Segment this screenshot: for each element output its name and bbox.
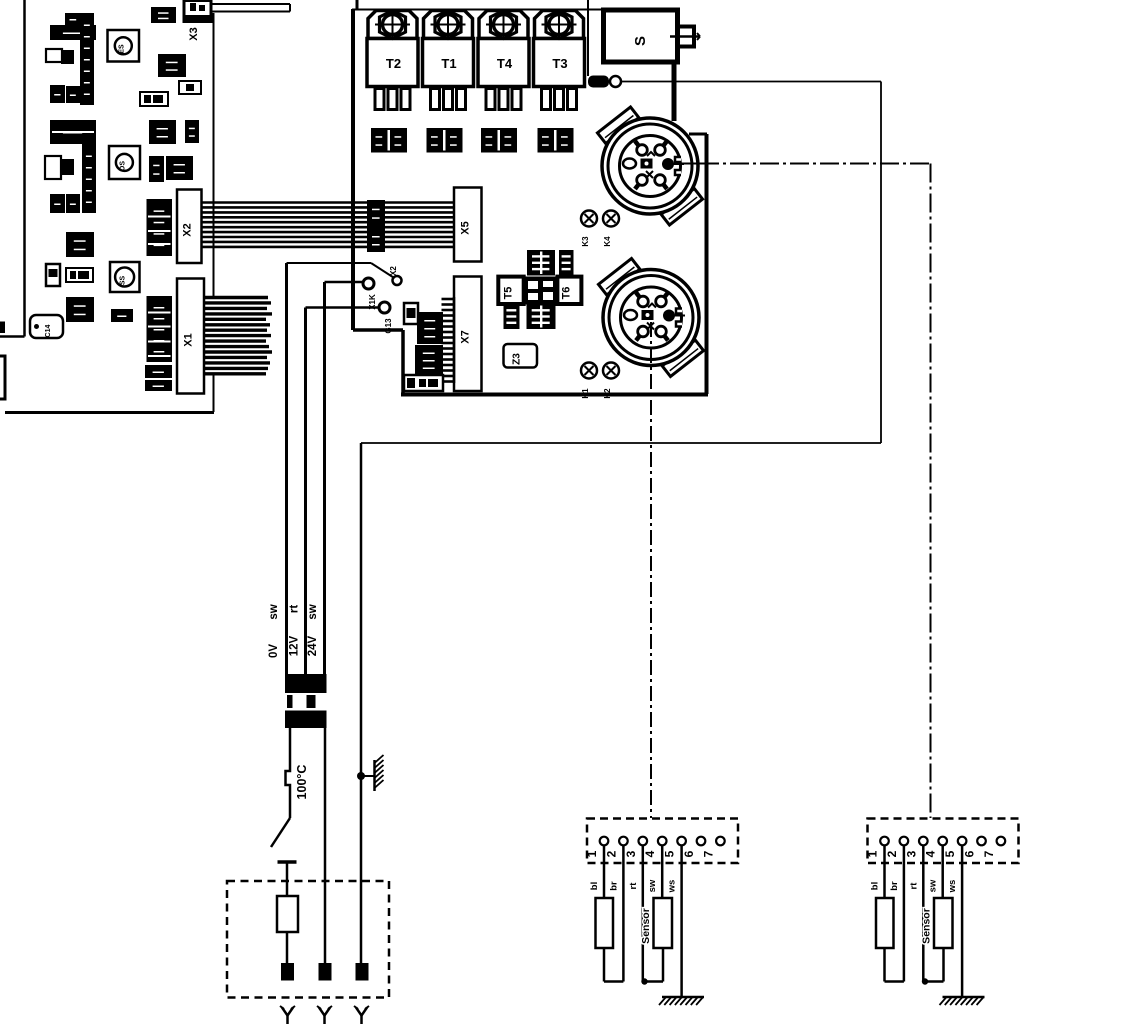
relay T5 (498, 277, 523, 304)
terminal block dashed outline (227, 881, 389, 998)
wire 12V riser (304, 308, 307, 681)
switch S (604, 10, 678, 62)
svg-text:K4: K4 (603, 236, 612, 247)
wire across middle (361, 442, 881, 444)
ground symbol chassis (361, 755, 384, 791)
wire to LED V1 (587, 0, 589, 76)
terminal lug 1 (281, 963, 294, 981)
resistor band R21 (50, 25, 96, 40)
resistor pair R45 (371, 128, 407, 153)
svg-text:0V: 0V (268, 644, 280, 658)
test point K3 (581, 211, 597, 247)
trimmer ES (108, 30, 140, 62)
svg-text:T6: T6 (561, 287, 573, 300)
frame cutout bottom left (0, 356, 5, 399)
junction dot (357, 772, 365, 780)
diode D1 (179, 81, 201, 94)
svg-text:G13: G13 (384, 318, 393, 334)
capacitor block C30/C31 (415, 345, 443, 375)
test point X1K (363, 278, 374, 289)
relay block K2B column (left of X2) (147, 199, 173, 256)
connector X2 (177, 190, 202, 264)
svg-text:K3: K3 (581, 236, 590, 247)
thermal cutout 100C wire (286, 728, 291, 818)
test point K2 (603, 363, 619, 399)
crimp symbol Y (280, 1006, 295, 1024)
svg-text:T1: T1 (441, 56, 456, 71)
capacitor C9 (45, 156, 74, 179)
resistor group 2N0 (158, 54, 186, 77)
board A1 bottom edge (5, 411, 214, 414)
diode Z01 (404, 375, 443, 391)
cable from X3 (211, 4, 290, 12)
board A2 top stub (356, 0, 359, 9)
PCB assembly A1 (left controller board) (0, 0, 214, 413)
diode pair D7/D8 (527, 304, 556, 329)
resistor pair R08 (538, 128, 574, 153)
resistor pair R4/R5 (66, 297, 94, 322)
diode block D14/D15 (417, 312, 443, 344)
board A2 bottom step (353, 328, 403, 332)
DIN connector B2 (598, 258, 703, 376)
diode 1N7 (140, 92, 168, 106)
resistor R61 (559, 250, 574, 276)
ribbon cable from X1 (204, 298, 272, 374)
resistor pair R41 (149, 120, 176, 144)
resistor R04 (504, 304, 520, 329)
terminal stub of S (670, 27, 700, 47)
diode 1NK (66, 268, 93, 282)
resistor R34 (145, 365, 172, 378)
board edge pad (0, 322, 5, 334)
transistor T3 (534, 10, 585, 110)
capacitor C5 (185, 120, 199, 143)
terminal lug 2 (319, 963, 332, 981)
board A2 right edge (689, 133, 707, 136)
transistor T1 (423, 10, 474, 110)
diode Z3 (504, 344, 538, 368)
resistor pair R05 (427, 128, 463, 153)
wire 0V riser (285, 263, 288, 680)
transistor T4 (478, 10, 529, 110)
crimp symbol Y (317, 1006, 332, 1024)
wire fuse to terminal (286, 932, 289, 963)
diode block center D4 (524, 277, 558, 305)
crimp symbol Y (354, 1006, 369, 1024)
PCB assembly A2 (right driver board) (352, 0, 708, 395)
board A2 left edge (351, 9, 355, 330)
svg-text:K2: K2 (603, 388, 612, 399)
trimmer SS (110, 262, 140, 292)
wire 24V to terminal (324, 728, 327, 963)
transistor T2 (367, 10, 418, 110)
connector X1 (177, 279, 204, 394)
connector X4 on ribbon (367, 200, 385, 252)
wire S to connector (672, 62, 677, 121)
svg-text:X1: X1 (183, 333, 195, 346)
sensor plug 2 with resistor and sensor (866, 819, 1019, 1006)
resistor R8 (50, 85, 80, 103)
svg-text:24V: 24V (307, 635, 319, 656)
LED V1 (588, 76, 621, 88)
resistor R31 (151, 7, 176, 23)
test point G13 (379, 302, 390, 313)
resistor R7 (149, 156, 164, 182)
cable to sensor plug 1 (650, 322, 652, 818)
svg-text:Z3: Z3 (512, 353, 523, 365)
resistor group R16/R26 (50, 194, 80, 213)
cable sleeve upper (285, 674, 327, 693)
resistor band R15/R35 (50, 120, 96, 144)
connector X7 (454, 277, 482, 392)
terminal lug 3 (356, 963, 369, 981)
svg-text:K1: K1 (581, 388, 590, 399)
svg-text:rt: rt (289, 605, 301, 613)
svg-text:ES: ES (118, 44, 125, 54)
resistor column R24-R29b (82, 144, 96, 213)
board A1 right edge (213, 13, 215, 296)
switch contact bar (278, 860, 297, 864)
svg-text:X7: X7 (460, 330, 472, 343)
board A2 top edge (352, 9, 603, 11)
svg-text:OS: OS (119, 161, 126, 171)
board A1 left edge (23, 0, 26, 337)
connector X5 (454, 188, 482, 262)
svg-text:T3: T3 (552, 56, 567, 71)
wire V1 down right side (880, 82, 882, 444)
capacitor C14 (30, 315, 63, 338)
svg-text:T4: T4 (497, 56, 513, 71)
diode pair D2/D3 (527, 250, 555, 276)
wire node X2 (287, 262, 372, 264)
capacitor CH (46, 264, 60, 286)
resistor pair R05b (481, 128, 517, 153)
test point K4 (603, 211, 619, 247)
resistor pair R28 (166, 156, 193, 180)
wire node X1K (325, 281, 364, 284)
resistor ES1 (111, 309, 133, 322)
board A1 edge step (0, 335, 25, 338)
cable sleeve lower (285, 711, 327, 729)
cable tie marks (287, 695, 293, 708)
trimmer OS (109, 146, 140, 179)
cable to sensor plug 2 (676, 163, 700, 165)
resistor R14b (145, 380, 172, 391)
wire 24V riser (323, 282, 326, 680)
resistor R18 (65, 13, 81, 25)
svg-text:T5: T5 (503, 287, 515, 300)
test point K1 (581, 363, 597, 399)
svg-text:X3: X3 (188, 27, 200, 40)
svg-text:SS: SS (120, 276, 127, 286)
svg-text:X2: X2 (182, 223, 194, 236)
fuse F1 (277, 896, 298, 932)
ribbon cable X2 to X5 (202, 203, 454, 247)
resistor column 37E (left of X1) (147, 296, 173, 362)
svg-text:X5: X5 (460, 221, 472, 234)
relay T6 (557, 277, 581, 304)
resistor pair R15/R25 (66, 232, 94, 257)
wire V1 to right (620, 81, 881, 83)
wire ground drop (360, 443, 363, 963)
wire node G13 (306, 306, 380, 309)
connector X3 (184, 1, 211, 23)
resistor column R22-R29 (80, 13, 94, 105)
resistor B1 (404, 303, 418, 324)
svg-text:S: S (632, 36, 649, 46)
sensor plug 1 with resistor and sensor (585, 819, 738, 1006)
crimp comb of X7 (442, 297, 455, 383)
svg-text:100°C: 100°C (295, 765, 309, 800)
board A2 bottom edge (401, 393, 708, 397)
svg-text:sw: sw (268, 604, 280, 619)
test point X2 (393, 276, 402, 285)
DIN connector B1 (597, 107, 702, 225)
capacitor C2 (46, 49, 74, 64)
svg-text:sw: sw (307, 604, 319, 619)
switch blade (271, 818, 290, 847)
svg-text:C14: C14 (45, 324, 52, 337)
svg-text:X2: X2 (389, 266, 398, 276)
svg-text:12V: 12V (289, 635, 301, 656)
svg-text:T2: T2 (386, 56, 401, 71)
